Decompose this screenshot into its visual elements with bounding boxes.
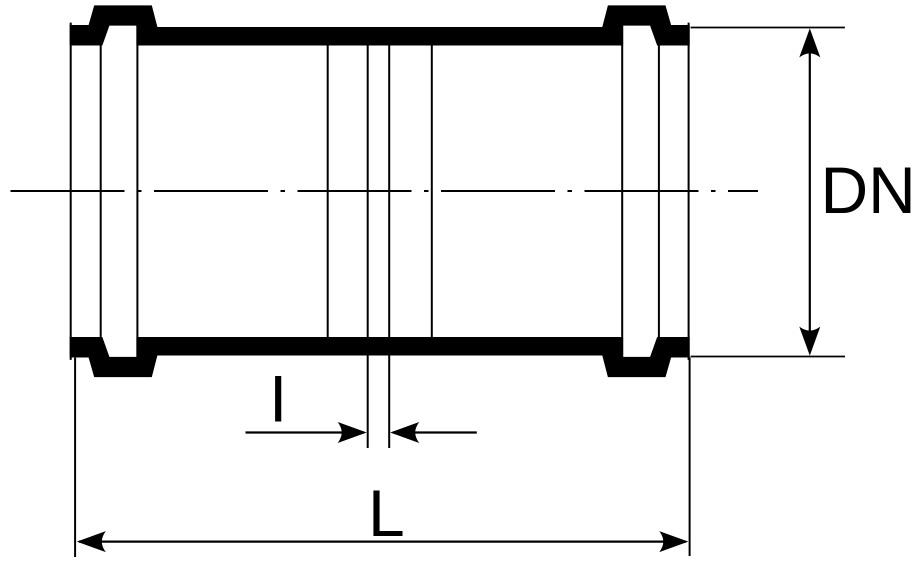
center stop right line	[431, 45, 433, 338]
L dimension line	[79, 540, 686, 542]
center stop left line	[327, 45, 329, 338]
top-left gasket groove	[102, 26, 136, 47]
bottom-right gasket groove	[623, 336, 658, 357]
svg-text:L: L	[368, 476, 405, 550]
svg-text:DN: DN	[821, 153, 916, 227]
DN arrow up	[799, 28, 820, 57]
DN dimension line	[809, 50, 811, 334]
I arrow left-pointing	[390, 422, 419, 443]
DN top extension line	[691, 27, 845, 29]
centerline	[11, 190, 759, 192]
DN arrow down	[799, 327, 820, 356]
right end face	[688, 23, 690, 360]
top wall band	[70, 5, 690, 45]
L extension line right	[689, 358, 691, 557]
L arrow right-pointing	[659, 531, 688, 552]
I extension line left	[367, 45, 369, 448]
left end face	[70, 23, 72, 360]
L arrow left-pointing	[77, 531, 106, 552]
left socket depth line	[136, 25, 138, 358]
L extension line left	[74, 358, 76, 557]
I arrow right-pointing	[338, 422, 367, 443]
bottom wall band	[70, 337, 690, 377]
top-right gasket groove	[623, 26, 658, 47]
I dimension line right tail	[393, 431, 477, 433]
svg-text:I: I	[269, 362, 287, 436]
right socket depth line	[621, 25, 623, 358]
bottom-left gasket groove	[102, 336, 136, 357]
left socket inner edge	[100, 45, 102, 338]
I dimension line left tail	[246, 431, 365, 433]
DN bottom extension line	[691, 356, 845, 358]
right socket inner edge	[658, 45, 660, 338]
I extension line right	[388, 45, 390, 448]
